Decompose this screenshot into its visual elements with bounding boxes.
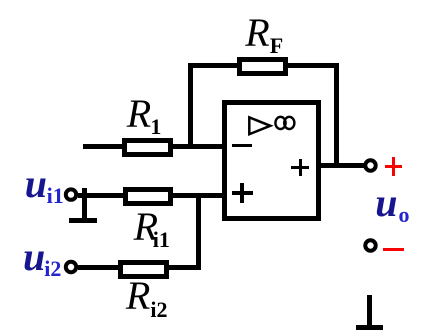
terminal circle ui1 [62,186,80,204]
resistor Ri1 [123,187,173,206]
output voltage uo label [375,183,409,223]
resistor R1 label [127,94,162,134]
wire junction vertical (Ri2 to Ri1 node) [196,195,202,270]
wire Ri1 to op-amp (non-inverting input) [173,193,222,198]
resistor R1 [122,138,173,157]
wire feedback left vertical [188,63,193,149]
wire ui1 to Ri1 [78,193,123,198]
op-amp output plus sign (inside box) [291,166,309,169]
resistor RF [237,57,288,76]
resistor RF label [245,13,283,53]
resistor Ri1 label [134,207,170,247]
wire Ri2 right [169,265,201,270]
resistor Ri2 [118,260,169,279]
ground symbol bottom right [367,295,372,327]
wire op-amp output [321,163,364,168]
wire feedback right vertical [334,63,339,168]
wire R1 left [83,144,122,149]
terminal circle ui2 [62,258,80,276]
wire ui2 to Ri2 [78,265,118,270]
ground stem under ui1 [82,188,87,220]
input terminal ui2 label [23,237,61,277]
wire feedback right horizontal [288,63,339,68]
wire R1 to op-amp (inverting input) [173,144,222,149]
output plus polarity (red) [385,165,403,168]
op-amp gain symbol (triangle + infinity) [245,110,300,140]
op-amp non-inverting input plus sign [232,191,254,194]
resistor Ri2 label [126,276,168,316]
op-amp U1 box [222,100,321,221]
op-amp inverting input minus sign [232,144,252,147]
output terminal circle (+) [361,156,380,175]
output terminal circle (-) [361,236,380,255]
input terminal ui1 label [25,164,64,204]
output minus polarity (red) [383,248,404,251]
wire feedback left horizontal [188,63,238,68]
ground bar under ui1 [69,218,97,223]
